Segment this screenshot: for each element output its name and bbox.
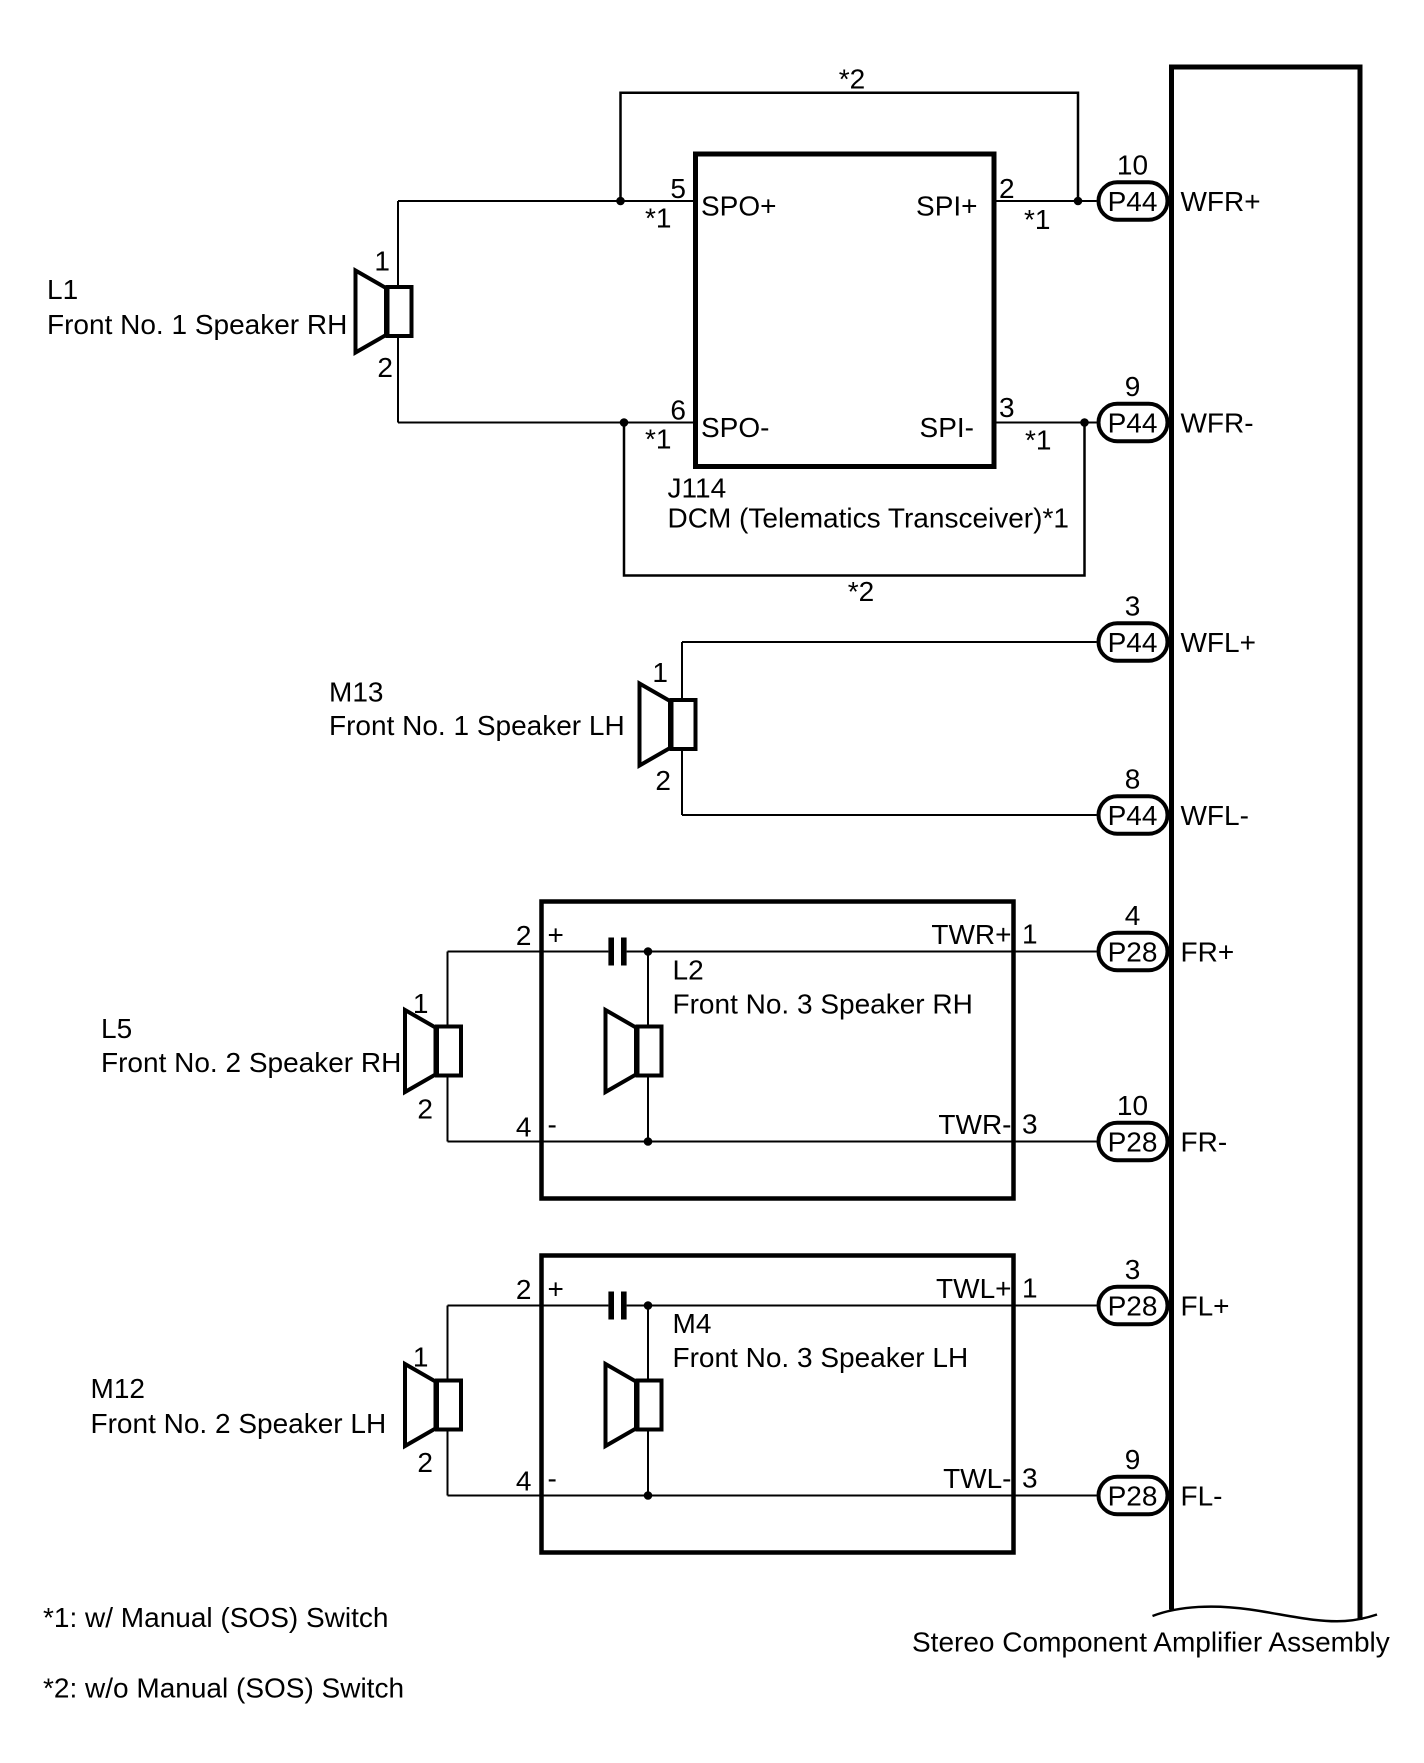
connector P28 pin10 <box>1099 1123 1168 1161</box>
svg-text:3: 3 <box>1125 1254 1141 1285</box>
connector P44 pin10 <box>1099 182 1168 220</box>
svg-text:*2: w/o Manual (SOS) Switch: *2: w/o Manual (SOS) Switch <box>43 1673 404 1704</box>
wire M13 pin2 to P44 pin8 <box>682 814 1097 816</box>
svg-text:-: - <box>548 1109 557 1140</box>
svg-text:TWR-: TWR- <box>938 1109 1011 1140</box>
wire tweeter M4 vertical <box>647 1306 649 1496</box>
speaker L1 <box>356 271 412 353</box>
wire capacitor to TWL+ / P28 pin3 <box>627 1305 1097 1307</box>
svg-text:2: 2 <box>417 1094 433 1125</box>
connector P44 pin3 <box>1099 623 1168 661</box>
wire M12 pin2 vertical <box>447 1405 449 1496</box>
svg-text:SPO+: SPO+ <box>701 191 776 222</box>
svg-text:2: 2 <box>655 765 671 796</box>
wire L1 pin1 vertical <box>397 201 399 286</box>
wire L5 pin1 vertical <box>447 952 449 1052</box>
node junction SPO- wire <box>620 418 629 427</box>
svg-text:M12: M12 <box>91 1373 145 1404</box>
wire L5 pin2 / TWR- to P28 pin10 <box>448 1141 1097 1143</box>
svg-text:P44: P44 <box>1108 186 1158 217</box>
svg-text:*1: *1 <box>1025 425 1051 456</box>
wire M12 pin1 vertical <box>447 1306 449 1406</box>
connector P44 pin9 <box>1099 404 1168 442</box>
box Front No. 3 Speaker RH <box>542 902 1014 1199</box>
svg-text:3: 3 <box>1022 1109 1038 1140</box>
speaker L5 <box>405 1010 461 1092</box>
node junction capacitor to M4 <box>644 1301 653 1310</box>
svg-text:1: 1 <box>413 1342 429 1373</box>
svg-text:FL-: FL- <box>1181 1481 1223 1512</box>
svg-text:2: 2 <box>377 352 393 383</box>
speaker L2 tweeter <box>606 1010 662 1092</box>
svg-text:Front No. 2 Speaker LH: Front No. 2 Speaker LH <box>91 1408 387 1439</box>
svg-text:TWR+: TWR+ <box>931 919 1011 950</box>
svg-text:1: 1 <box>374 246 390 277</box>
svg-text:P28: P28 <box>1108 937 1158 968</box>
node junction SPI- wire <box>1080 418 1089 427</box>
svg-text:4: 4 <box>516 1466 532 1497</box>
svg-text:TWL+: TWL+ <box>936 1273 1011 1304</box>
svg-text:WFL-: WFL- <box>1181 800 1249 831</box>
svg-text:-: - <box>548 1463 557 1494</box>
svg-text:Front No. 3 Speaker LH: Front No. 3 Speaker LH <box>673 1342 969 1373</box>
wire capacitor to TWR+ / P28 pin4 <box>627 951 1097 953</box>
svg-text:Front No. 3 Speaker RH: Front No. 3 Speaker RH <box>673 989 973 1020</box>
svg-text:*2: *2 <box>848 576 874 607</box>
wire M12 pin1 to capacitor <box>448 1305 609 1307</box>
svg-text:WFR+: WFR+ <box>1181 186 1261 217</box>
svg-text:P44: P44 <box>1108 627 1158 658</box>
svg-text:P28: P28 <box>1108 1291 1158 1322</box>
svg-text:3: 3 <box>1125 591 1141 622</box>
svg-text:Front No. 1 Speaker RH: Front No. 1 Speaker RH <box>47 309 347 340</box>
wire M13 pin1 to P44 pin3 <box>682 641 1097 643</box>
connector P28 pin9 <box>1099 1477 1168 1515</box>
svg-text:M4: M4 <box>673 1308 712 1339</box>
svg-text:*1: w/ Manual (SOS) Switch: *1: w/ Manual (SOS) Switch <box>43 1602 388 1633</box>
svg-text:5: 5 <box>670 173 686 204</box>
svg-text:L5: L5 <box>101 1013 132 1044</box>
svg-text:P44: P44 <box>1108 800 1158 831</box>
svg-text:6: 6 <box>670 395 686 426</box>
connector P44 pin8 <box>1099 796 1168 834</box>
amplifier assembly box <box>1153 65 1378 1622</box>
node junction L2 to TWR- <box>644 1137 653 1146</box>
node junction M4 to TWL- <box>644 1491 653 1500</box>
svg-text:FL+: FL+ <box>1181 1291 1230 1322</box>
svg-text:WFR-: WFR- <box>1181 408 1254 439</box>
speaker M12 <box>405 1364 461 1446</box>
box Front No. 3 Speaker LH <box>542 1256 1014 1553</box>
svg-text:FR+: FR+ <box>1181 937 1235 968</box>
svg-text:FR-: FR- <box>1181 1127 1228 1158</box>
svg-text:4: 4 <box>516 1112 532 1143</box>
svg-text:3: 3 <box>999 392 1015 423</box>
svg-text:9: 9 <box>1125 371 1141 402</box>
svg-text:P28: P28 <box>1108 1127 1158 1158</box>
wire L1 pin2 vertical <box>397 338 399 423</box>
node junction capacitor to L2 <box>644 947 653 956</box>
wire L5 pin1 to capacitor <box>448 951 609 953</box>
svg-text:+: + <box>548 920 564 951</box>
svg-text:1: 1 <box>413 988 429 1019</box>
wire *2 bypass top loop <box>621 93 1079 201</box>
svg-text:3: 3 <box>1022 1463 1038 1494</box>
wire M13 pin2 vertical <box>681 750 683 815</box>
svg-text:SPI+: SPI+ <box>916 191 977 222</box>
speaker M13 <box>640 684 696 766</box>
svg-text:*1: *1 <box>1024 204 1050 235</box>
capacitor C (front LH tweeter) <box>608 1292 626 1320</box>
connector P28 pin4 <box>1099 933 1168 971</box>
svg-text:L1: L1 <box>47 274 78 305</box>
svg-text:1: 1 <box>652 657 668 688</box>
svg-text:TWL-: TWL- <box>943 1463 1011 1494</box>
svg-text:1: 1 <box>1022 1273 1038 1304</box>
svg-text:8: 8 <box>1125 764 1141 795</box>
svg-text:P44: P44 <box>1108 408 1158 439</box>
wire L5 pin2 vertical <box>447 1051 449 1142</box>
svg-text:M13: M13 <box>329 677 383 708</box>
speaker M4 tweeter <box>606 1364 662 1446</box>
svg-text:10: 10 <box>1117 1090 1148 1121</box>
svg-text:2: 2 <box>417 1447 433 1478</box>
svg-text:2: 2 <box>516 1274 532 1305</box>
svg-text:DCM (Telematics Transceiver)*1: DCM (Telematics Transceiver)*1 <box>668 503 1069 534</box>
svg-text:4: 4 <box>1125 900 1141 931</box>
svg-text:WFL+: WFL+ <box>1181 627 1256 658</box>
svg-text:SPO-: SPO- <box>701 412 769 443</box>
svg-text:10: 10 <box>1117 150 1148 181</box>
svg-text:2: 2 <box>516 920 532 951</box>
svg-text:*1: *1 <box>645 203 671 234</box>
node junction SPO+ wire <box>616 197 625 206</box>
wire tweeter L2 vertical <box>647 952 649 1142</box>
svg-text:SPI-: SPI- <box>920 412 974 443</box>
wire L1 pin2 to DCM SPO- <box>398 422 695 424</box>
wire *2 bypass bottom loop <box>624 423 1085 576</box>
wire L1 pin1 to DCM SPO+ <box>398 200 695 202</box>
svg-text:9: 9 <box>1125 1444 1141 1475</box>
svg-text:1: 1 <box>1022 919 1038 950</box>
svg-text:*1: *1 <box>645 424 671 455</box>
svg-text:2: 2 <box>999 173 1015 204</box>
wire M13 pin1 vertical <box>681 642 683 700</box>
capacitor C (front RH tweeter) <box>608 938 626 966</box>
svg-text:Stereo Component Amplifier Ass: Stereo Component Amplifier Assembly <box>912 1627 1390 1658</box>
connector P28 pin3 <box>1099 1287 1168 1325</box>
node junction SPI+ wire <box>1074 197 1083 206</box>
DCM box J114 <box>696 154 995 467</box>
svg-text:*2: *2 <box>839 64 865 95</box>
svg-text:P28: P28 <box>1108 1481 1158 1512</box>
wire DCM SPI+ to connector P44 pin10 <box>994 200 1097 202</box>
svg-text:J114: J114 <box>668 473 727 504</box>
svg-text:+: + <box>548 1274 564 1305</box>
wire M12 pin2 / TWL- to P28 pin9 <box>448 1495 1097 1497</box>
svg-text:Front No. 1 Speaker LH: Front No. 1 Speaker LH <box>329 710 625 741</box>
svg-text:L2: L2 <box>673 955 704 986</box>
wire DCM SPI- to connector P44 pin9 <box>994 422 1097 424</box>
svg-text:Front No. 2 Speaker RH: Front No. 2 Speaker RH <box>101 1047 401 1078</box>
